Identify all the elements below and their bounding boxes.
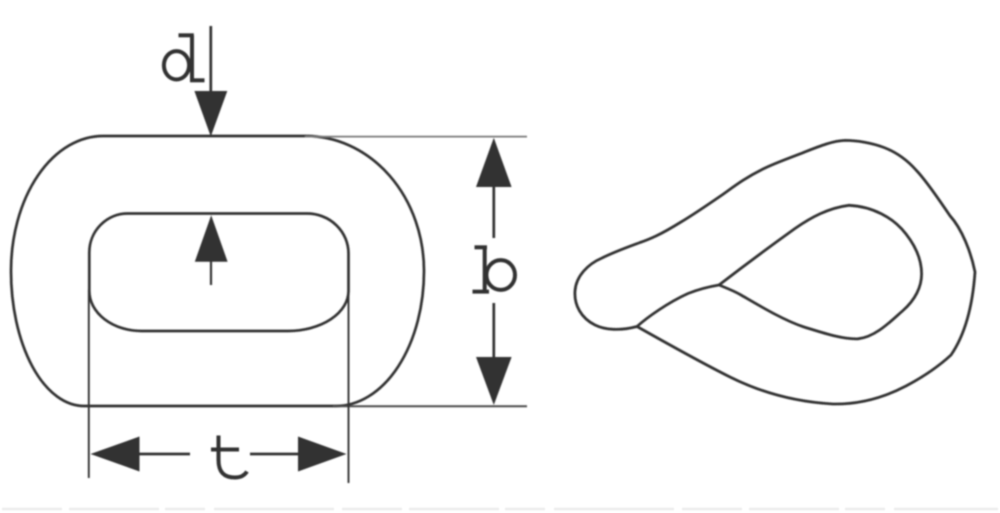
chain link outer contour (front view) bbox=[11, 136, 424, 406]
faint cropped text row at bottom bbox=[2, 508, 998, 510]
extension line b bottom bbox=[333, 405, 527, 407]
chain link inner opening (front view) bbox=[89, 213, 348, 331]
arrowhead b up bbox=[476, 138, 512, 187]
extension line t left (vertical) bbox=[88, 290, 90, 478]
label b (typewriter glyph) bbox=[473, 246, 516, 292]
arrowhead t right bbox=[298, 437, 347, 472]
dimension line t with arrowheads bbox=[137, 453, 190, 456]
extension line b top bbox=[305, 136, 527, 138]
arrowhead t left bbox=[91, 437, 140, 472]
3D link outer silhouette (perspective view) bbox=[575, 140, 975, 404]
inner arrow (wire gauge pointer, up) bbox=[210, 260, 212, 285]
arrowhead b down bbox=[476, 357, 512, 405]
dimension leader line d (vertical) bbox=[209, 26, 212, 95]
label d (typewriter glyph) bbox=[164, 35, 205, 80]
3D link near-limb inner edge bbox=[637, 285, 719, 327]
3D link inner hole (teardrop) bbox=[719, 205, 922, 339]
dimension line b with arrowheads bbox=[492, 186, 495, 238]
label t (typewriter glyph) bbox=[211, 436, 247, 478]
extension line t right (vertical) bbox=[348, 290, 350, 483]
arrowhead d (down) bbox=[194, 91, 227, 137]
